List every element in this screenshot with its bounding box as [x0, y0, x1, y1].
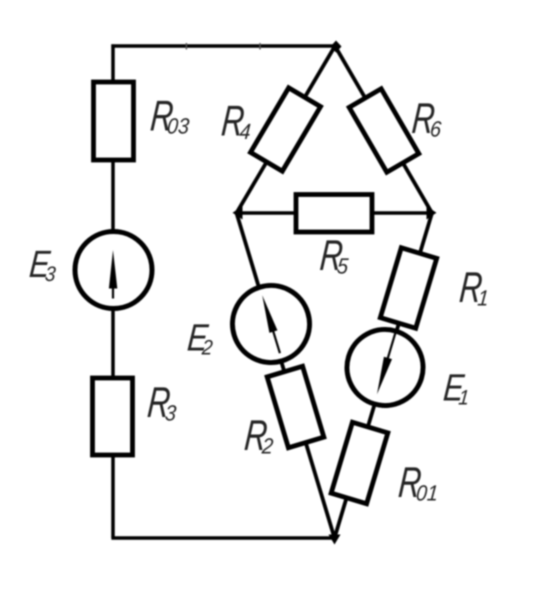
svg-text:3: 3: [44, 263, 57, 286]
node left-middle junction arrow: [233, 206, 243, 220]
resistor R6: [349, 89, 419, 172]
source E1: [338, 320, 433, 415]
wire left vertical rail: [111, 44, 115, 538]
label R01: [397, 458, 439, 506]
svg-text:4: 4: [239, 120, 252, 144]
tick mark on top wire: [185, 43, 187, 50]
svg-text:1: 1: [458, 387, 471, 410]
resistor R01: [331, 422, 388, 504]
label R2: [243, 411, 275, 459]
wire middle horizontal between nodes: [237, 211, 433, 215]
resistor R4: [250, 88, 320, 171]
svg-text:6: 6: [429, 118, 442, 142]
label R5: [318, 231, 349, 279]
resistor R3: [93, 378, 133, 455]
wire bottom horizontal: [111, 536, 334, 540]
resistor R03: [94, 82, 134, 160]
wire diagonal right-middle node to bottom node: [335, 213, 433, 538]
label E2: [186, 317, 214, 359]
wire diagonal left-middle node to bottom node: [237, 213, 335, 538]
node bottom junction arrow: [329, 535, 341, 545]
label R6: [410, 94, 442, 142]
source E3: [75, 232, 152, 309]
svg-text:2: 2: [260, 435, 274, 459]
label R03: [149, 92, 191, 140]
svg-text:2: 2: [200, 337, 213, 360]
svg-text:3: 3: [164, 402, 177, 426]
svg-text:03: 03: [166, 115, 190, 139]
label E1: [442, 367, 470, 409]
source E2: [223, 276, 319, 372]
label E3: [28, 244, 57, 286]
resistor R2: [267, 366, 324, 448]
node right-middle junction arrow: [427, 206, 437, 220]
node apex junction diamond: [331, 41, 342, 53]
resistor R1: [380, 248, 436, 329]
label R3: [146, 378, 178, 426]
wire top horizontal: [111, 44, 336, 48]
resistor R5: [296, 195, 372, 233]
wire diagonal apex to right-middle node: [335, 46, 432, 213]
label R4: [220, 97, 252, 145]
svg-text:01: 01: [415, 482, 439, 506]
tick mark on top wire: [259, 43, 261, 50]
svg-text:5: 5: [336, 255, 349, 279]
svg-text:1: 1: [477, 287, 490, 311]
wire diagonal apex to left-middle node: [237, 46, 336, 213]
label R1: [458, 263, 490, 311]
